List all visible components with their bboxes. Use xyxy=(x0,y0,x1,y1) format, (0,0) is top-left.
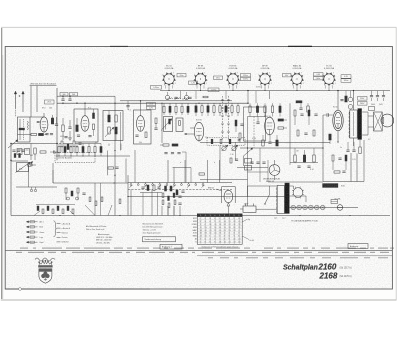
socket V1 pin label box xyxy=(151,86,162,90)
left bus wire xyxy=(10,144,12,216)
wire top small rail xyxy=(57,95,115,97)
wire bottom-left diagonals xyxy=(85,205,95,216)
socket V5 label box xyxy=(283,74,292,77)
rectifier socket xyxy=(293,188,303,198)
ratio detector cluster xyxy=(162,193,164,198)
switch contact S5 xyxy=(166,184,168,186)
band switch dashed shafts xyxy=(222,96,224,140)
resistor feed x214 xyxy=(213,106,215,113)
wires down to bottom rail mid xyxy=(134,150,136,183)
output transformer Tr2 winding xyxy=(350,110,357,138)
dial lamp La4 xyxy=(309,205,314,210)
AM IF dashed box xyxy=(55,153,95,163)
loudspeaker xyxy=(381,114,394,127)
dial lamp La6 xyxy=(320,205,325,210)
chassis bottom rail xyxy=(11,215,390,217)
Tr2 secondary xyxy=(362,111,368,113)
stacked pin-label boxes xyxy=(147,103,156,106)
wire y172 segment xyxy=(248,171,269,173)
hanging resistor row mixer-left xyxy=(163,106,165,112)
wire y182 segment power xyxy=(285,181,323,183)
wire rail y160 xyxy=(11,160,28,162)
switch contacts on shafts xyxy=(221,99,224,101)
resistor feed x232 xyxy=(231,106,233,113)
speaker terminal strip xyxy=(374,112,383,131)
switch contact S1 xyxy=(137,184,139,186)
mains cord xyxy=(256,208,277,210)
wire x57 vertical xyxy=(56,88,58,160)
coil pair L2 L3 xyxy=(17,149,22,155)
V6 leads xyxy=(337,91,339,111)
parts list row 2 xyxy=(16,252,22,253)
resistor R27 under IF strip xyxy=(100,147,102,153)
oscillator coil can 2 xyxy=(176,118,183,132)
switch contact S8 xyxy=(188,184,190,186)
negative feedback wire xyxy=(323,181,364,183)
vertical wire x128 lower xyxy=(127,175,129,215)
scattered parts F trimmed xyxy=(108,167,114,169)
socket V6 left label boxes xyxy=(314,73,324,76)
small parts above bottom rail xyxy=(89,197,91,202)
aerial legend row A xyxy=(26,221,28,223)
scan speckle overlay xyxy=(0,0,1,1)
cap row y163 right xyxy=(250,161,253,163)
AM-FM switch bank xyxy=(128,182,232,184)
tone cluster under rail y183 xyxy=(65,188,67,193)
verticals x95-105 to rail xyxy=(94,183,96,216)
ratio detector verticals to rail xyxy=(161,206,163,216)
volume potentiometer box xyxy=(17,163,29,172)
box2 lower parts xyxy=(145,132,147,138)
variable capacitor Cb xyxy=(232,146,236,150)
switch contact S3 xyxy=(152,184,154,186)
aerial legend row L xyxy=(26,236,28,238)
mixer top rail ties xyxy=(195,91,197,99)
aerial legend row E xyxy=(26,226,28,228)
wire x107 vertical xyxy=(107,151,109,176)
legend brace xyxy=(54,221,57,237)
scattered parts G top mixer xyxy=(174,96,177,98)
resistor R21 under IF strip xyxy=(64,147,66,153)
dial lamp row wire xyxy=(289,207,358,209)
scattered resistor group A (60-85,140-160) xyxy=(61,141,63,147)
switch contact S7 xyxy=(181,184,183,186)
tube V2 EF89 pentode xyxy=(81,116,89,132)
V5 side parts xyxy=(256,121,259,123)
resistor R23 under IF strip xyxy=(76,147,78,153)
wire from V7 to rail xyxy=(227,212,229,216)
Fi1 internal coils xyxy=(108,115,110,122)
heater bus wire y100.8 xyxy=(120,100,232,102)
aerial legend row U xyxy=(26,241,28,243)
dial lamp La3 xyxy=(303,205,308,210)
resistor R24 under IF strip xyxy=(82,147,84,153)
top components row over mixer xyxy=(160,90,390,92)
antenna arrow A2 xyxy=(22,93,24,109)
resistor R10 xyxy=(62,125,64,132)
tone caps xyxy=(297,165,300,167)
parts list rule 2 (right half) xyxy=(197,255,392,257)
feed resistors row right xyxy=(249,106,251,113)
dial lamp La5 xyxy=(315,205,320,210)
tuner bottom parts xyxy=(31,133,37,135)
wire x268 lower xyxy=(267,160,269,182)
aerial legend row G xyxy=(26,231,28,233)
speaker wires xyxy=(368,115,374,117)
gang area parts xyxy=(230,158,232,163)
wire y116 segment xyxy=(248,116,266,118)
switch contact S6 xyxy=(173,184,175,186)
bus wire y142.5 long xyxy=(200,141,330,143)
oscillator coil can 1 xyxy=(164,117,173,132)
switch contact S4 xyxy=(159,184,161,186)
keyboard switch blob cluster xyxy=(37,206,39,211)
switch contact S9 xyxy=(195,184,197,186)
wire from note to tuner xyxy=(30,86,32,117)
Tr2 primary leads xyxy=(353,91,355,110)
right area caps top xyxy=(370,95,373,97)
label K1 xyxy=(60,93,68,96)
frame top dark segment 2 xyxy=(110,45,128,47)
mains switch xyxy=(265,195,270,204)
vertical wire x115 long xyxy=(114,103,116,215)
cap C9 xyxy=(61,98,64,100)
IF stage box 2 xyxy=(134,110,152,144)
resistor feed x196 xyxy=(195,106,197,113)
switch contact S2 xyxy=(145,184,147,186)
socket V2 pin label box xyxy=(208,88,219,92)
vertical wire x120.5 xyxy=(120,112,122,151)
wire tuner top xyxy=(30,116,44,118)
neutralizing cap xyxy=(126,105,129,107)
switch contact S10 xyxy=(202,184,204,186)
wire V3 top xyxy=(140,101,142,116)
Grundig crest logo xyxy=(39,260,52,283)
ratio det caps xyxy=(178,195,181,197)
ratio det extra blobs xyxy=(176,190,178,195)
resistor feed x238 xyxy=(237,106,239,113)
IF transformer can Fi1 xyxy=(103,111,123,141)
magic eye V7 EM84 xyxy=(222,186,236,188)
fuse holder xyxy=(337,205,343,211)
resistor R26 under IF strip xyxy=(94,147,96,153)
socket V4 pin label boxes xyxy=(241,74,251,77)
tube V3 EF89 pentode xyxy=(137,116,145,132)
socket V6 right label boxes xyxy=(341,75,351,78)
NTC block xyxy=(323,184,339,188)
AF boxes xyxy=(245,159,252,164)
FM band switch arrow xyxy=(8,141,17,149)
scattered parts B (150-160,115-135) xyxy=(155,118,157,124)
AVC stub xyxy=(52,170,54,183)
legend right column xyxy=(57,223,61,225)
TA phono socket xyxy=(30,189,32,191)
tube voltage table header xyxy=(197,214,242,217)
boxed label right xyxy=(358,97,368,101)
V4 grid leads xyxy=(190,127,194,129)
wire plug up xyxy=(247,186,249,206)
ground stub 1 xyxy=(69,131,71,138)
dial lamp La2 xyxy=(297,205,302,210)
resistor feed x208 xyxy=(207,106,209,113)
cap C10 xyxy=(68,98,71,100)
junction dots extra xyxy=(114,103,115,104)
electrolytic block xyxy=(369,107,375,111)
tube V1 EC92 triode xyxy=(40,117,48,132)
junction dots left xyxy=(10,160,11,161)
wire x186 down xyxy=(185,152,187,183)
mixer to switch verticals xyxy=(167,160,169,183)
tube V5 EABC80 xyxy=(265,117,275,135)
resistor R11 xyxy=(76,125,78,132)
coil L1 in tuner box xyxy=(27,121,30,130)
punch hole on bottom frame xyxy=(19,288,22,291)
label K2 xyxy=(70,93,78,96)
wire rail y167 segment xyxy=(173,167,192,169)
cathode resistor V6 xyxy=(329,134,331,140)
V5 below parts xyxy=(262,140,264,146)
wire V2 top xyxy=(84,103,86,116)
IF strip lower rail xyxy=(56,155,130,157)
left mid rail y183 xyxy=(53,182,128,184)
gang vertical x220 xyxy=(219,145,221,179)
barretter box xyxy=(331,200,338,204)
stamp box right xyxy=(348,244,368,249)
FM tuner input box xyxy=(18,117,31,142)
wire x126 vertical xyxy=(125,159,127,183)
scattered parts D (292-320,108-145) xyxy=(294,110,296,116)
V1 grid cap xyxy=(39,121,40,123)
wire rail y148 xyxy=(240,147,323,149)
pot circle xyxy=(28,163,32,167)
parts list rule 1 xyxy=(6,249,393,251)
tube voltage table grid xyxy=(197,214,242,245)
AF switch diagonal xyxy=(244,149,253,157)
gang box internals xyxy=(211,139,213,144)
tuning gang dashed box xyxy=(207,138,245,145)
V1 anode components xyxy=(51,118,53,124)
detector diode parts xyxy=(296,101,302,103)
phase splitter small circles xyxy=(348,97,353,102)
cap C11 xyxy=(68,126,71,128)
scattered parts E (330-352,152-180) xyxy=(332,155,334,161)
wire rail ties right xyxy=(247,91,249,104)
right verticals down xyxy=(350,153,352,182)
resistor R22 under IF strip xyxy=(70,147,72,153)
wire x247 vertical xyxy=(247,117,249,149)
mixer mid components xyxy=(163,144,169,146)
wire stubs under sockets xyxy=(168,86,170,90)
top mini circles (coil cans) xyxy=(165,95,169,99)
resistor feed x202 xyxy=(201,106,203,113)
pot wiper contact xyxy=(30,164,32,166)
power transformer Tr1 core xyxy=(285,183,290,214)
dashed shaft x254 xyxy=(253,117,255,149)
wires center-bottom xyxy=(142,193,144,216)
antenna feeder wires xyxy=(15,108,17,117)
volume control network xyxy=(294,155,296,162)
mains plug xyxy=(243,206,256,212)
V6 screen components xyxy=(345,96,347,102)
IF stage box 1 xyxy=(74,109,98,142)
resistor feed x220 xyxy=(219,106,221,113)
extra cluster ratio detector dark xyxy=(165,186,167,191)
heater wire from Tr1 xyxy=(289,185,293,187)
wire y179 gang bottom xyxy=(200,179,248,181)
coupling to V6 xyxy=(326,113,328,116)
main rail y196 xyxy=(128,196,285,198)
vertical wire x323 xyxy=(322,115,324,182)
socket V3 left label xyxy=(214,76,223,79)
output transformer Tr2 core xyxy=(358,109,362,140)
tuning indicator drive circle xyxy=(269,165,280,176)
resistor R20 under IF strip xyxy=(58,147,60,153)
cap C12 xyxy=(64,136,67,138)
handwritten mark xyxy=(35,258,55,261)
scattered parts C (233-246,118-143) xyxy=(235,120,237,126)
vertical wire x256 top xyxy=(255,91,257,104)
tone network under transformer xyxy=(346,149,349,151)
coupling cap C7 xyxy=(53,151,55,154)
parts list row 3 right xyxy=(208,257,213,258)
boxed note xyxy=(143,237,176,242)
antenna arrow A1 xyxy=(15,93,17,109)
small caps row left xyxy=(12,149,15,151)
wire x290 vertical xyxy=(289,103,291,148)
vertical wire x180.5 top xyxy=(180,91,182,99)
vertical wire x247 lower xyxy=(247,148,249,197)
tube V6 EL84 output pentode xyxy=(333,110,343,130)
power transformer Tr1 primary winding xyxy=(277,186,284,214)
wire rail y187 left xyxy=(16,186,57,188)
wire x31 vertical lower xyxy=(30,144,32,161)
resistor R25 under IF strip xyxy=(88,147,90,153)
small chokes on top rail xyxy=(168,98,173,99)
resistor R8 xyxy=(40,151,46,153)
boxed label SUP xyxy=(45,100,55,104)
parts list row 1 xyxy=(20,248,28,249)
EABC80 diode section box xyxy=(244,107,266,141)
switch bank lower line xyxy=(128,189,232,191)
if strip ties xyxy=(108,144,110,147)
vertical wire x260 xyxy=(259,148,261,182)
wire y167 right of gang xyxy=(237,167,268,169)
box1 coil pair xyxy=(93,113,95,119)
tone switch cluster xyxy=(147,185,149,191)
wire x115 vertical xyxy=(114,96,116,103)
tube V4 ECH81 triode-heptode xyxy=(194,122,203,140)
stamp box left xyxy=(160,244,182,249)
selenium rectifier leads xyxy=(289,195,306,197)
variable capacitor Ca xyxy=(222,146,226,150)
V7 lead arrow xyxy=(227,203,230,206)
resistor feed x226 xyxy=(225,106,227,113)
wire x235 vertical mid xyxy=(235,142,237,160)
dial lamp La1 xyxy=(291,205,296,210)
switch contact S0 xyxy=(130,184,132,186)
table pointer labels xyxy=(242,219,247,222)
vertical wire x290 lower xyxy=(289,148,291,165)
vertical wire x162 xyxy=(161,103,163,143)
Fi1 trimmer arrows xyxy=(105,128,113,137)
wire rail y143 xyxy=(11,143,58,145)
